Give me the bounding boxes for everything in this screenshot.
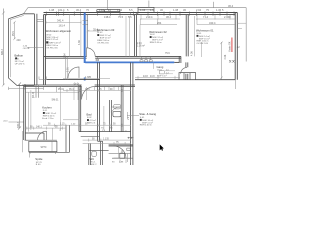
svg-text:OK FB: OK FB — [23, 48, 30, 50]
wc top wall — [81, 136, 99, 138]
top wall lower line — [44, 14, 236, 16]
svg-text:1.36: 1.36 — [117, 8, 123, 12]
svg-text:240: 240 — [22, 84, 27, 87]
svg-text:343.4: 343.4 — [209, 21, 216, 25]
balcony labels — [15, 54, 25, 66]
svg-text:Bad: Bad — [87, 113, 92, 117]
svg-text:K.01: K.01 — [43, 110, 48, 112]
washbasin — [113, 111, 121, 116]
svg-text:346.4: 346.4 — [17, 121, 20, 128]
svg-text:RBH 2.60 m: RBH 2.60 m — [150, 42, 162, 44]
svg-text:1.84: 1.84 — [63, 53, 66, 58]
outer boundary right — [245, 8, 247, 62]
room label W01 — [196, 29, 214, 45]
rotated dims — [1, 31, 227, 128]
svg-text:OK FB 2.65: OK FB 2.65 — [46, 47, 58, 49]
blue tick lower — [84, 78, 86, 81]
dim line W.allg — [46, 21, 81, 24]
svg-text:7.14: 7.14 — [203, 15, 209, 19]
wc right wall jog — [98, 141, 103, 165]
right wall lower thin — [234, 80, 236, 89]
svg-text:5.5: 5.5 — [128, 15, 132, 19]
Kochen label — [42, 106, 56, 120]
svg-text:264: 264 — [157, 21, 162, 25]
dim line left lower — [18, 83, 21, 130]
svg-text:1.135: 1.135 — [103, 139, 109, 141]
toilet — [92, 151, 97, 156]
dim row y78.5 left — [63, 78, 110, 80]
line y119.8 — [63, 119, 80, 121]
vertical dims bath — [74, 85, 119, 158]
svg-text:Kochen: Kochen — [42, 106, 52, 110]
kitchen counter top — [25, 139, 57, 141]
svg-text:240: 240 — [17, 39, 22, 42]
dim row y128 kitchen — [25, 127, 66, 130]
wall W03-W02 upper — [135, 15, 137, 57]
wc wall left — [89, 144, 91, 166]
kitchen door arc — [38, 131, 47, 140]
svg-text:Stau. & Gang: Stau. & Gang — [139, 112, 156, 116]
dim ticks top wall — [46, 12, 234, 16]
wall W02-W01 — [186, 15, 188, 57]
svg-text:161.4: 161.4 — [59, 23, 66, 27]
ticks across blue — [83, 21, 89, 25]
wall lower x130 — [131, 62, 133, 165]
svg-text:2.060: 2.060 — [224, 15, 231, 19]
kitchen counter line — [56, 86, 58, 92]
Stau Gang label — [139, 112, 156, 127]
blue wall vertical — [84, 13, 86, 63]
dim lines W03 right — [126, 16, 129, 56]
socket right of door — [96, 56, 99, 60]
svg-text:SM.01: SM.01 — [52, 98, 60, 101]
svg-text:210.4: 210.4 — [146, 15, 153, 19]
window band A — [97, 10, 120, 13]
wall x122 — [121, 85, 123, 132]
y158 line — [112, 157, 133, 159]
svg-text:NGF 2: NGF 2 — [90, 164, 97, 165]
svg-text:UF 226 %: UF 226 % — [15, 63, 25, 65]
lower walls y145 — [109, 145, 133, 146]
svg-text:36.4: 36.4 — [76, 8, 82, 12]
svg-text:75.6: 75.6 — [165, 52, 170, 55]
balcony dim vertical — [13, 21, 16, 40]
window W02 — [138, 7, 154, 12]
svg-text:2.04: 2.04 — [196, 8, 202, 12]
wall line right of blue — [86, 15, 88, 48]
wall W01 left lower — [186, 62, 188, 79]
svg-text:4.38: 4.38 — [78, 40, 81, 45]
balcony top connectors — [37, 19, 44, 21]
svg-text:Wohnraum 01: Wohnraum 01 — [196, 29, 214, 33]
kitchen left band — [28, 92, 30, 131]
svg-text:1.5: 1.5 — [150, 8, 154, 12]
svg-text:36.4: 36.4 — [228, 4, 234, 8]
svg-text:685.4: 685.4 — [1, 48, 4, 55]
svg-text:1.36 m²: 1.36 m² — [137, 45, 145, 48]
bottom wall right part — [135, 79, 235, 81]
left wall — [44, 15, 46, 85]
gang table box — [159, 71, 164, 74]
svg-text:43.8: 43.8 — [143, 75, 148, 78]
corridor bottom wall end dark — [174, 61, 179, 63]
corridor sockets — [140, 56, 152, 61]
corridor bottom wall blue — [85, 61, 174, 63]
tiny dimension numbers row above wall y11 — [49, 4, 234, 12]
dim rows y140-143 — [83, 139, 131, 145]
svg-text:NRF 118 m²: NRF 118 m² — [49, 41, 61, 44]
sockets on kitchen wall — [74, 83, 76, 85]
svg-text:1.36: 1.36 — [216, 8, 222, 12]
outer boundary top — [24, 8, 247, 14]
cursor — [160, 144, 164, 150]
dim row y125 — [43, 124, 131, 127]
dim row corridor y77 — [135, 76, 180, 79]
bad bottom wall — [79, 131, 131, 133]
dim line left margin — [2, 9, 4, 86]
svg-text:45.01: 45.01 — [58, 88, 65, 91]
svg-text:RBH 2.60 m: RBH 2.60 m — [140, 125, 152, 127]
balcony inner rail — [10, 15, 23, 77]
x marks right — [229, 60, 234, 63]
gang leaders — [165, 71, 175, 74]
svg-text:1.15: 1.15 — [60, 124, 65, 126]
svg-text:BGF 137 m²: BGF 137 m² — [46, 38, 58, 41]
door arc lower left — [68, 67, 79, 78]
dim numbers inside rooms — [57, 15, 231, 31]
balcony outline — [9, 14, 35, 86]
red highlight line — [231, 38, 233, 53]
svg-text:140.1: 140.1 — [36, 127, 42, 129]
svg-text:B 60: B 60 — [36, 164, 41, 165]
top wall upper line — [44, 12, 238, 14]
svg-text:SP70: SP70 — [41, 146, 48, 149]
svg-text:1.26: 1.26 — [99, 8, 105, 12]
svg-text:36.4: 36.4 — [166, 15, 172, 19]
corridor end wall — [179, 56, 181, 63]
kitchen top wall — [24, 85, 135, 86]
room label W03 — [97, 28, 115, 44]
svg-text:NGF 6 m²: NGF 6 m² — [157, 74, 167, 77]
svg-text:1.63: 1.63 — [140, 8, 146, 12]
kitchen left wall — [24, 85, 26, 140]
kitchen inner vertical — [36, 85, 38, 98]
svg-text:1.385: 1.385 — [85, 76, 92, 79]
balcony callout leader — [27, 46, 43, 48]
door arc W03 — [87, 48, 96, 57]
dim drop x127.4 — [126, 153, 128, 162]
svg-text:[24.0]: [24.0] — [32, 92, 35, 98]
vertical dims kitchen small — [31, 90, 52, 140]
svg-text:Spüle: Spüle — [35, 157, 43, 161]
svg-text:Balkon: Balkon — [15, 54, 24, 58]
door arc gang-W01 — [181, 67, 187, 73]
svg-text:138.4: 138.4 — [104, 15, 111, 19]
svg-text:WC: WC — [90, 157, 95, 161]
kochen right wall — [79, 85, 81, 132]
svg-text:4.06: 4.06 — [191, 51, 194, 56]
svg-text:Essb. 2 Per.: Essb. 2 Per. — [42, 117, 54, 120]
svg-text:Wohnraum allgemein: Wohnraum allgemein — [46, 29, 72, 33]
svg-text:161.4: 161.4 — [58, 8, 65, 12]
wc door arc — [114, 146, 127, 158]
door frame lines — [66, 56, 68, 79]
tick below blue — [153, 62, 155, 69]
kitchen bottom step — [25, 133, 44, 140]
svg-text:1.35: 1.35 — [97, 89, 102, 91]
svg-text:B.02: B.02 — [87, 117, 92, 119]
stau gang leader — [127, 112, 139, 119]
y153 line — [109, 153, 131, 155]
bad door arc — [82, 87, 95, 100]
step outer line — [22, 131, 24, 152]
svg-text:Kante OK: Kante OK — [228, 41, 231, 51]
wall x110 — [110, 100, 112, 132]
spule leader — [29, 152, 31, 158]
WC label — [90, 157, 98, 166]
svg-text:95.5: 95.5 — [12, 31, 15, 36]
bad right wall — [98, 62, 100, 141]
svg-text:G.01: G.01 — [157, 69, 163, 71]
svg-text:75.5: 75.5 — [118, 15, 124, 19]
wall x66-69 — [66, 125, 70, 152]
bottom tick rows — [120, 160, 131, 164]
kitchen dim vertical x60 — [59, 86, 62, 131]
svg-text:1.38: 1.38 — [173, 8, 179, 12]
washbasin arc — [111, 107, 120, 113]
fixtures wc — [120, 150, 125, 158]
svg-text:Wohnraum 02: Wohnraum 02 — [149, 30, 167, 34]
wall tick and cross — [130, 12, 138, 15]
kitchen inner horizontal — [25, 91, 79, 93]
balcony dim bottom — [9, 87, 44, 90]
svg-text:Gang: Gang — [157, 65, 164, 69]
svg-text:5.5: 5.5 — [129, 8, 133, 12]
room label W allgemein — [46, 29, 72, 49]
svg-text:1.38: 1.38 — [49, 8, 55, 12]
Gang label — [157, 65, 167, 78]
counter feet — [30, 152, 56, 154]
svg-text:W.03: W.03 — [97, 32, 103, 34]
svg-text:35.4: 35.4 — [69, 89, 74, 91]
lower walls y150 — [89, 149, 109, 151]
dim row y90.4 — [63, 89, 131, 92]
wall ticks x130 — [128, 137, 134, 139]
svg-text:1.44: 1.44 — [85, 89, 90, 91]
svg-text:S.01: S.01 — [140, 117, 145, 119]
sink counter box — [29, 141, 57, 151]
window centerlines — [108, 0, 214, 10]
svg-text:OK FB 2.65: OK FB 2.65 — [97, 42, 109, 44]
kitchen callout — [9, 121, 24, 123]
right wall — [235, 13, 237, 80]
svg-text:W.01: W.01 — [197, 33, 203, 35]
svg-text:OK FB 2.65: OK FB 2.65 — [197, 43, 209, 45]
small box on wall — [127, 148, 130, 151]
dim line W.allg x80.9 — [80, 16, 82, 56]
svg-text:2.01: 2.01 — [67, 67, 70, 72]
svg-text:RBH 2.6: RBH 2.6 — [87, 123, 96, 125]
counter bottom double — [29, 151, 70, 153]
room label W02 — [149, 30, 167, 44]
door stubs left — [39, 77, 46, 80]
corridor top wall — [44, 55, 181, 57]
svg-text:43.8: 43.8 — [150, 76, 155, 78]
svg-text:4.06: 4.06 — [224, 54, 227, 59]
balcony wall building side — [34, 14, 37, 86]
svg-text:W.02: W.02 — [150, 34, 156, 36]
svg-text:341.4: 341.4 — [57, 19, 64, 23]
Bad label — [87, 113, 97, 125]
right side short links — [237, 23, 246, 28]
sink divider — [51, 141, 53, 151]
dim drops inside rooms — [69, 15, 71, 57]
bottom wall left part — [46, 78, 100, 80]
shaft box — [179, 73, 196, 80]
Spule label — [35, 157, 43, 166]
